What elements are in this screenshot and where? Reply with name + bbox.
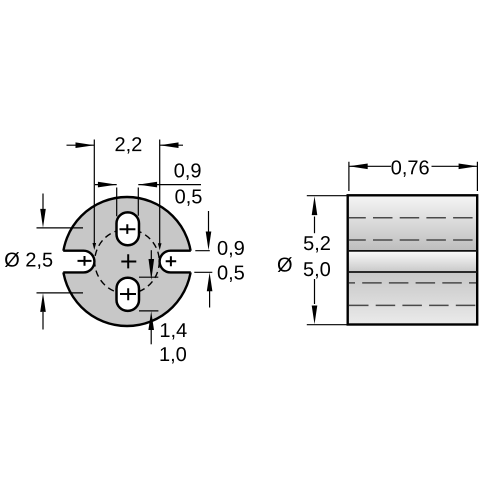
dimension 0,76 extension lines bbox=[349, 162, 478, 191]
left notch bbox=[57, 251, 94, 273]
hidden hole line top 2 bbox=[349, 239, 476, 241]
side view outline bbox=[348, 195, 478, 324]
label 2,2 bbox=[116, 137, 142, 154]
dimension 2,2 extension line left with arrow bbox=[93, 140, 97, 251]
bottom slot hole bbox=[117, 278, 140, 311]
label 1,4 bbox=[161, 323, 187, 339]
label 5,2 bbox=[304, 236, 330, 253]
label 0,9 right bbox=[218, 241, 244, 258]
top slot hole bbox=[117, 212, 140, 245]
dimension 2,2 right outside arrow bbox=[160, 142, 183, 148]
right notch width lower arrow bbox=[207, 273, 213, 308]
dimension Ø 2,5 extension lines bbox=[37, 228, 84, 293]
dimension 2,2 extension line right with arrow bbox=[158, 140, 162, 251]
dimension 0,9/0,5 slot width left arrow bbox=[95, 182, 117, 188]
hidden hole line bottom 2 bbox=[349, 304, 476, 306]
right notch bbox=[160, 251, 197, 273]
label Ø side view bbox=[278, 257, 292, 272]
side view body bbox=[348, 195, 478, 324]
right notch cross bbox=[166, 256, 177, 266]
disc body front view bbox=[63, 197, 192, 326]
left notch cross bbox=[78, 256, 92, 266]
dimension 0,76 left inside arrow bbox=[349, 164, 391, 170]
hidden hole line bottom 1 bbox=[349, 282, 476, 284]
dimension Ø 2,5 upper arrow bbox=[40, 194, 46, 228]
label 0,5 top bbox=[175, 189, 201, 206]
dimension 1,4/1,0 lower arrow bbox=[148, 311, 154, 344]
side view groove lower edge bbox=[348, 271, 478, 273]
side view groove band bbox=[348, 251, 478, 272]
top hole cross bbox=[120, 224, 136, 234]
pitch circle dashed Ø 2,5 bbox=[95, 229, 160, 294]
hidden hole line top 1 bbox=[349, 217, 476, 219]
dimension Ø 5,2/5,0 extension lines bbox=[307, 196, 348, 325]
label 5,0 bbox=[304, 262, 330, 279]
dimension 1,4/1,0 extension lines bbox=[139, 277, 158, 311]
center cross bbox=[121, 254, 136, 268]
dimension 2,2 left outside arrow bbox=[67, 142, 95, 148]
label 1,0 bbox=[161, 347, 186, 364]
label 0,9 top bbox=[174, 163, 200, 180]
label 0,76 bbox=[391, 160, 428, 177]
dimension Ø 5,2/5,0 upper arrow bbox=[312, 196, 318, 233]
right notch width extension lines bbox=[194, 251, 212, 273]
label 0,5 right bbox=[218, 265, 244, 282]
dimension Ø 5,2/5,0 lower arrow bbox=[312, 279, 318, 324]
label Ø 2,5 bbox=[5, 252, 52, 269]
bottom hole cross bbox=[120, 288, 136, 300]
dimension Ø 2,5 lower arrow bbox=[40, 293, 46, 329]
dimension 0,9/0,5 slot width right arrow and fraction bar bbox=[138, 182, 201, 188]
dimension 1,4/1,0 upper arrow bbox=[149, 250, 155, 280]
dimension 0,9/0,5 slot width extension lines bbox=[117, 188, 139, 217]
right notch width upper arrow bbox=[206, 211, 212, 250]
dimension 0,76 right inside arrow bbox=[432, 164, 478, 170]
side view groove upper edge bbox=[348, 250, 478, 252]
